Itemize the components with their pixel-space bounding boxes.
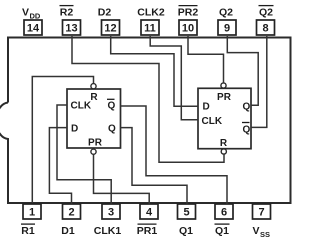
flip-flop FF1 box — [67, 89, 121, 148]
label Q2 (pin 9) — [219, 7, 233, 19]
label R1-bar (pin 1) — [21, 224, 35, 237]
svg-text:R1: R1 — [21, 225, 35, 237]
svg-text:Q1: Q1 — [215, 225, 229, 237]
wire D2: pin 12 to FF2 D input — [111, 36, 198, 106]
wire PR1-bar: pin 4 to FF1 PR bubble — [94, 155, 150, 205]
FF1 PR bubble — [91, 149, 96, 154]
svg-text:D2: D2 — [98, 7, 112, 19]
label VSS (pin 7) — [253, 225, 271, 239]
svg-text:14: 14 — [27, 23, 40, 35]
pin 9 box — [218, 20, 236, 35]
svg-text:D: D — [71, 124, 78, 135]
FF2 PR bubble — [221, 83, 226, 88]
label R2-bar (pin 13) — [60, 6, 74, 19]
svg-text:R: R — [90, 92, 98, 103]
label PR1-bar (pin 4) — [137, 224, 158, 237]
svg-text:Q: Q — [243, 124, 251, 135]
label Q2-bar (pin 8) — [259, 6, 274, 19]
svg-text:5: 5 — [183, 207, 189, 219]
label D2 (pin 12) — [98, 7, 112, 19]
pin 11 box — [141, 20, 159, 35]
svg-text:9: 9 — [224, 23, 230, 35]
svg-text:CLK2: CLK2 — [137, 7, 165, 19]
svg-text:PR: PR — [217, 92, 232, 103]
svg-text:R: R — [220, 138, 228, 149]
pin 2 box — [63, 204, 81, 219]
svg-text:CLK1: CLK1 — [94, 225, 122, 237]
svg-text:Q1: Q1 — [179, 225, 193, 237]
svg-text:11: 11 — [144, 23, 156, 35]
wire R1-bar: pin 1 to FF1 R input — [32, 77, 93, 204]
label Q1 (pin 5) — [179, 225, 193, 237]
svg-text:Q: Q — [108, 101, 116, 112]
pin 1 box — [23, 204, 41, 219]
svg-text:Q: Q — [243, 102, 251, 113]
wire PR2-bar: pin 10 to FF2 PR bubble — [188, 36, 224, 83]
pin 5 box — [178, 204, 196, 219]
svg-text:PR1: PR1 — [137, 225, 158, 237]
FF2 label Q-bar — [242, 123, 251, 136]
pin 3 box — [102, 204, 120, 219]
svg-text:R2: R2 — [60, 7, 74, 19]
svg-text:12: 12 — [104, 23, 116, 35]
label PR2-bar (pin 10) — [178, 6, 199, 19]
svg-text:2: 2 — [68, 207, 74, 219]
wire D1: pin 2 to FF1 D input — [49, 128, 71, 204]
wire Q2-bar: FF2 Q-bar output to pin 8 — [251, 36, 267, 127]
pin 8 box — [257, 20, 275, 35]
FF2 R bubble — [221, 149, 226, 154]
svg-text:7: 7 — [258, 207, 264, 219]
wire Q1: FF1 Q output to pin 5 — [121, 128, 188, 204]
svg-text:D1: D1 — [61, 225, 75, 237]
svg-text:Q2: Q2 — [259, 7, 273, 19]
pin 14 box — [24, 20, 42, 35]
svg-text:D: D — [203, 102, 210, 113]
svg-text:CLK: CLK — [71, 101, 92, 112]
label Q1-bar (pin 6) — [215, 224, 230, 237]
pin 4 box — [140, 204, 158, 219]
wire Q1-bar: FF1 Q-bar output to pin 6 — [121, 106, 228, 204]
svg-text:PR2: PR2 — [178, 7, 199, 19]
flip-flop FF2 box — [198, 88, 251, 148]
svg-text:10: 10 — [182, 23, 194, 35]
svg-text:4: 4 — [146, 207, 153, 219]
svg-text:8: 8 — [262, 23, 268, 35]
svg-text:6: 6 — [221, 207, 227, 219]
svg-text:DD: DD — [30, 12, 41, 21]
pin 12 box — [102, 20, 120, 35]
svg-text:SS: SS — [260, 230, 270, 239]
svg-text:Q: Q — [108, 124, 116, 135]
wire CLK2: pin 11 to FF2 CLK input — [150, 36, 198, 120]
svg-text:PR: PR — [88, 137, 103, 148]
pin 6 box — [215, 204, 233, 219]
label D1 (pin 2) — [61, 225, 75, 237]
FF1 R bubble — [91, 84, 96, 89]
svg-text:1: 1 — [29, 207, 35, 219]
wire CLK1: pin 3 to FF1 CLK input — [57, 105, 111, 204]
svg-text:CLK: CLK — [202, 116, 223, 127]
label CLK1 (pin 3) — [94, 225, 122, 237]
wire R2-bar: pin 13 to FF2 R bubble — [72, 36, 224, 162]
svg-text:V: V — [253, 225, 260, 237]
svg-text:Q2: Q2 — [219, 7, 233, 19]
pin 10 box — [179, 20, 197, 35]
pin 7 box — [253, 204, 271, 219]
svg-text:3: 3 — [108, 207, 114, 219]
wire Q2: FF2 Q output to pin 9 — [227, 36, 258, 105]
svg-text:V: V — [22, 7, 29, 19]
svg-text:13: 13 — [65, 23, 77, 35]
FF1 label Q-bar — [107, 99, 116, 111]
label VDD (pin 14) — [22, 7, 41, 21]
IC body DIP-14 outline with notch — [0, 38, 291, 204]
pin 13 box — [63, 20, 81, 35]
label CLK2 (pin 11) — [137, 7, 165, 19]
